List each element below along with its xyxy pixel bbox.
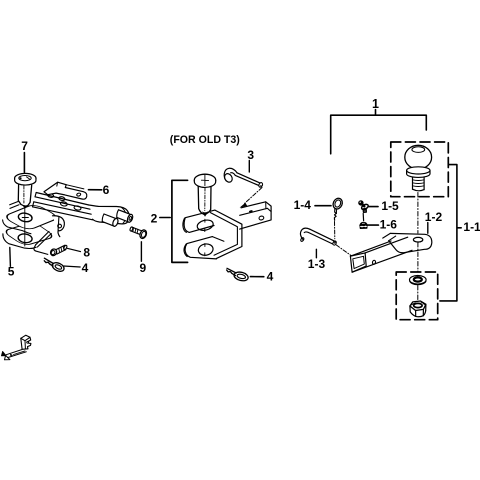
leader line 9 — [140, 242, 142, 261]
clip 4 middle — [227, 268, 249, 282]
bolt 1-5 icon — [359, 201, 369, 213]
dash-dot pin axis — [336, 245, 351, 256]
leader line 7 — [23, 153, 25, 173]
leader dash 6 — [89, 189, 102, 191]
svg-text:5: 5 — [8, 265, 15, 279]
arrowhead pin 3 axis — [240, 203, 248, 208]
clevis pin 2 — [194, 174, 215, 217]
nut 1-6 icon — [360, 222, 368, 228]
upper plate — [2, 203, 60, 246]
svg-text:2: 2 — [151, 211, 158, 225]
leader line 1-2 — [427, 223, 429, 234]
leader dash 1-6 — [367, 224, 378, 226]
leader dash 4 middle — [250, 276, 263, 278]
svg-text:1-2: 1-2 — [425, 210, 443, 224]
svg-text:8: 8 — [83, 246, 90, 260]
svg-text:1-6: 1-6 — [380, 217, 398, 231]
axis dash-dot vertical — [417, 193, 419, 301]
link line 1-5 to 1-6 — [362, 214, 364, 221]
pin 3 — [223, 168, 263, 188]
dashed box top — [391, 142, 449, 197]
svg-text:4: 4 — [267, 270, 274, 284]
svg-text:1-4: 1-4 — [294, 198, 312, 212]
bolt 9 — [130, 227, 148, 240]
bracket lines 2 — [172, 180, 188, 262]
ball mount bar 1-2 — [350, 233, 431, 272]
svg-text:1-3: 1-3 — [308, 257, 326, 271]
svg-text:6: 6 — [103, 183, 110, 197]
leader line 4 left — [64, 266, 81, 267]
pipe stub B — [117, 210, 134, 223]
channel bar — [10, 193, 93, 220]
svg-text:1-1: 1-1 — [463, 220, 480, 234]
leader dash 1-4 — [315, 205, 331, 207]
leader dash 1-5 — [369, 206, 378, 208]
washer — [410, 275, 427, 284]
leader line 1-3 — [315, 249, 317, 257]
svg-text:3: 3 — [247, 148, 254, 162]
bolt 8 — [50, 245, 68, 257]
small mount bracket — [1, 335, 31, 360]
lower plate 5 — [2, 222, 55, 249]
pipe stub A — [102, 214, 119, 227]
dash-dot axis pin 3 — [245, 188, 262, 204]
arm — [89, 205, 130, 224]
kink strap — [34, 231, 51, 254]
leader line 3 — [248, 161, 250, 173]
svg-text:9: 9 — [140, 261, 147, 275]
svg-text:7: 7 — [21, 139, 28, 153]
leader dash 8 — [67, 248, 80, 251]
svg-text:4: 4 — [82, 261, 89, 275]
hitch ball — [405, 145, 432, 191]
clevis plates / channel — [183, 210, 242, 259]
boss with tab — [53, 216, 65, 237]
dash-dot clip axis — [334, 222, 336, 239]
bracket 1-1 — [440, 165, 461, 301]
clip 1-4 — [331, 197, 344, 221]
leader line 5 — [9, 248, 12, 267]
leader dash 2 — [160, 217, 170, 219]
pin 7 — [15, 173, 36, 208]
svg-text:(FOR OLD T3): (FOR OLD T3) — [170, 134, 240, 146]
square tube middle — [240, 202, 271, 229]
dashed box bottom — [396, 272, 438, 320]
svg-text:1-5: 1-5 — [381, 199, 399, 213]
nut — [410, 301, 426, 317]
bracket 6 — [44, 182, 87, 199]
hitch pin 1-3 — [300, 228, 337, 246]
bracket 1 — [331, 110, 427, 154]
clip 4 left — [44, 258, 65, 273]
